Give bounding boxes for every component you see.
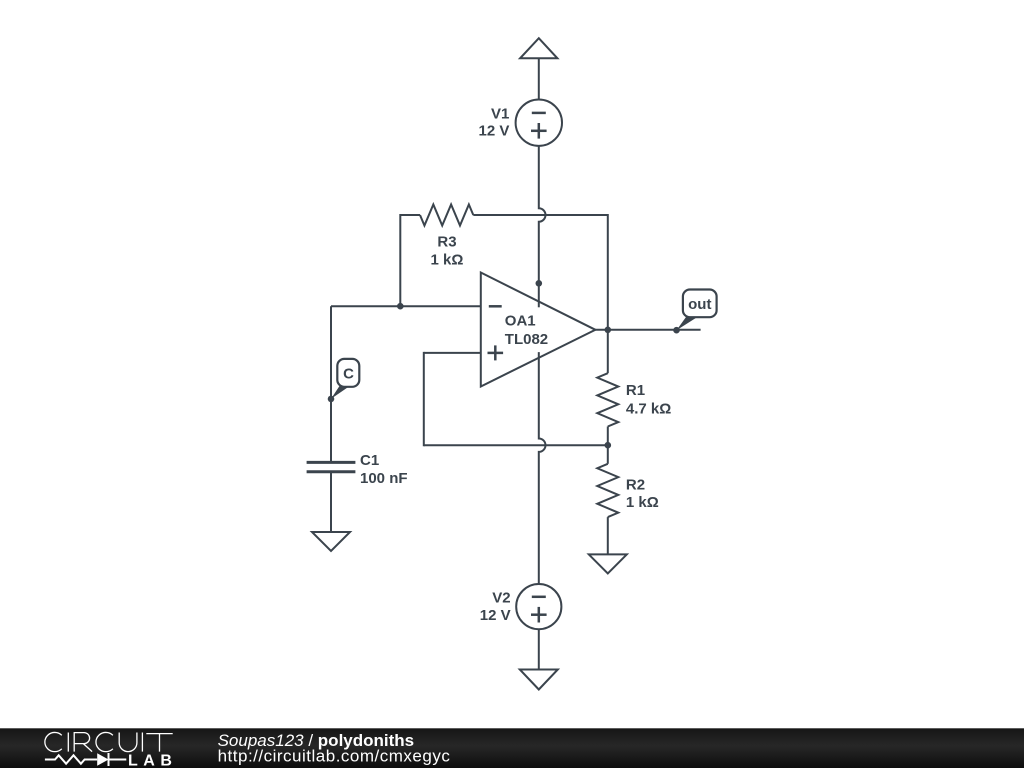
ground below R2	[589, 554, 627, 573]
ground below V2	[520, 670, 558, 690]
svg-text:out: out	[688, 296, 711, 313]
wire R1 to R2	[607, 427, 609, 464]
footer url	[218, 747, 451, 766]
label OA1 type TL082	[505, 331, 548, 348]
op-amp OA1	[481, 273, 596, 387]
label V1	[491, 105, 509, 122]
label OA1	[505, 312, 536, 329]
svg-text:C: C	[343, 365, 354, 382]
wire node C branch down to C1	[330, 306, 332, 461]
svg-text:LAB: LAB	[128, 753, 177, 768]
junction at node out	[673, 327, 680, 334]
label R2	[626, 477, 645, 494]
junction at R1/R2/feedback node	[605, 442, 612, 449]
junction at inverting input node	[397, 303, 404, 310]
junction at OA1 V+ pin	[536, 280, 543, 287]
footer bar	[0, 728, 1024, 768]
label V2	[492, 590, 510, 607]
svg-text:1 kΩ: 1 kΩ	[626, 494, 659, 511]
wire non-inverting input	[424, 352, 481, 354]
junction at output node	[605, 327, 612, 334]
CircuitLab logo resistor-diode art	[45, 753, 126, 766]
svg-text:R1: R1	[626, 382, 645, 399]
CircuitLab logo LAB	[128, 753, 177, 768]
wire C1 to ground	[330, 472, 332, 532]
svg-text:12 V: 12 V	[479, 123, 510, 140]
svg-text:100 nF: 100 nF	[360, 470, 408, 487]
capacitor C1	[307, 462, 356, 471]
resistor R2	[597, 464, 618, 517]
wire feedback loop vertical	[423, 352, 425, 446]
wire top feedback right segment	[473, 214, 608, 216]
wire V+ arrow to V1 top	[538, 58, 540, 100]
wire bottom feedback horizontal	[424, 444, 608, 446]
wire V1 bottom to OA1 V+ pin (hops over feedback wire)	[539, 146, 546, 283]
node flag C	[331, 359, 359, 399]
svg-text:12 V: 12 V	[480, 607, 511, 624]
wire right vertical from top feedback to R1	[607, 214, 609, 373]
svg-text:1 kΩ: 1 kΩ	[431, 251, 464, 268]
resistor R1	[597, 373, 618, 426]
op-amp OA1 V- pin and wire to V2 (hops over feedback wire)	[539, 352, 546, 584]
label R1 value 4.7 kΩ	[626, 400, 671, 417]
wire output	[595, 329, 700, 331]
wire R3 left down to inverting input node	[399, 214, 401, 306]
svg-text:R2: R2	[626, 477, 645, 494]
svg-text:V1: V1	[491, 105, 509, 122]
ground below C1	[312, 532, 350, 551]
label C1 value 100 nF	[360, 470, 408, 487]
label C1	[360, 452, 379, 469]
svg-text:TL082: TL082	[505, 331, 548, 348]
svg-text:OA1: OA1	[505, 312, 536, 329]
power flag V+ arrow	[520, 38, 557, 58]
footer title Soupas123 / polydoniths	[218, 731, 415, 750]
CircuitLab logo CIRCUIT	[45, 732, 173, 751]
label R1	[626, 382, 645, 399]
svg-text:4.7 kΩ: 4.7 kΩ	[626, 400, 671, 417]
label R3	[437, 234, 456, 251]
resistor R3	[420, 205, 473, 226]
junction at node C	[328, 396, 335, 403]
wire inverting input	[331, 305, 481, 307]
svg-text:R3: R3	[437, 234, 456, 251]
svg-text:http://circuitlab.com/cmxegyc: http://circuitlab.com/cmxegyc	[218, 747, 451, 766]
node flag out	[677, 290, 717, 331]
voltage source V2	[516, 584, 561, 629]
op-amp OA1 V+ pin	[538, 283, 540, 307]
label V1 value 12 V	[479, 123, 510, 140]
label R3 value 1 kΩ	[431, 251, 464, 268]
wire V2 to ground	[538, 629, 540, 669]
voltage source V1	[516, 100, 562, 146]
svg-text:V2: V2	[492, 590, 510, 607]
wire top feedback left segment	[400, 214, 420, 216]
wire R2 to ground	[607, 517, 609, 554]
svg-text:C1: C1	[360, 452, 379, 469]
label V2 value 12 V	[480, 607, 511, 624]
label R2 value 1 kΩ	[626, 494, 659, 511]
